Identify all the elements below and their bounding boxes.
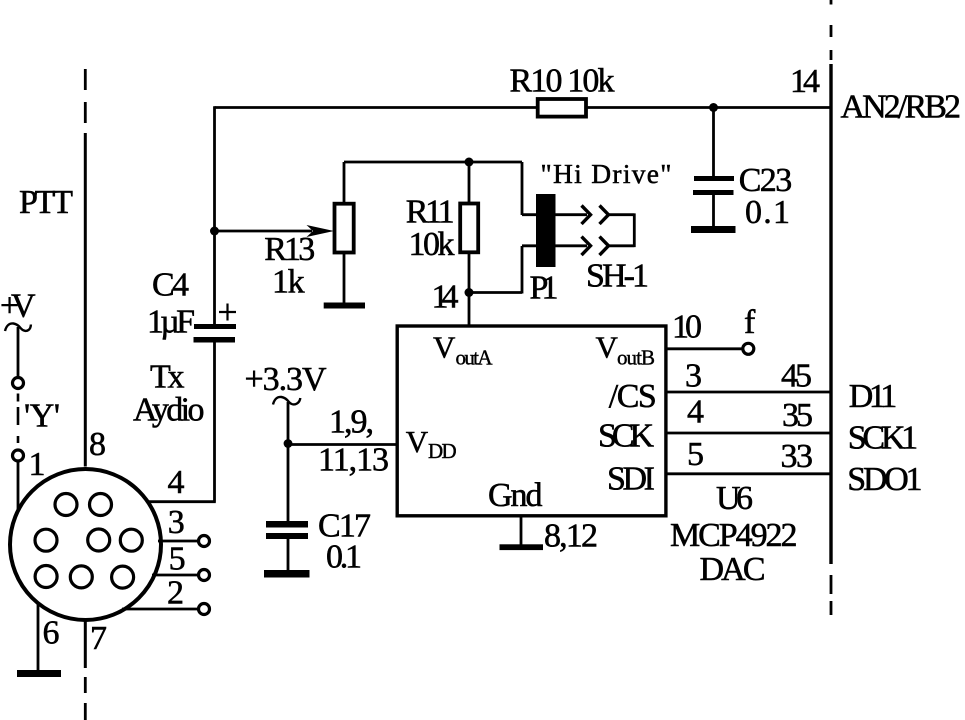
svg-text:V: V xyxy=(433,330,456,365)
svg-text:Tx: Tx xyxy=(150,359,185,396)
svg-text:DD: DD xyxy=(428,439,457,463)
svg-text:D11: D11 xyxy=(849,378,898,415)
svg-text:Aydio: Aydio xyxy=(133,392,205,429)
svg-text:0.1: 0.1 xyxy=(745,194,790,231)
svg-text:'Y': 'Y' xyxy=(24,398,60,435)
svg-text:3: 3 xyxy=(685,358,702,395)
svg-text:1µF: 1µF xyxy=(147,304,195,341)
svg-text:5: 5 xyxy=(687,436,704,473)
svg-text:"Hi Drive": "Hi Drive" xyxy=(541,158,672,189)
svg-text:R10 10k: R10 10k xyxy=(510,63,615,100)
svg-text:11,13: 11,13 xyxy=(318,442,389,479)
svg-text:4: 4 xyxy=(687,394,704,431)
svg-text:1k: 1k xyxy=(272,263,305,300)
svg-text:U6: U6 xyxy=(716,480,753,517)
svg-text:7: 7 xyxy=(90,620,107,657)
svg-text:MCP4922: MCP4922 xyxy=(670,517,798,554)
svg-text:45: 45 xyxy=(781,358,812,395)
svg-text:DAC: DAC xyxy=(700,551,766,588)
svg-text:8,12: 8,12 xyxy=(544,518,598,555)
svg-text:V: V xyxy=(406,424,429,459)
svg-text:10: 10 xyxy=(672,309,702,346)
svg-text:8: 8 xyxy=(89,426,106,463)
svg-text:0.1: 0.1 xyxy=(326,539,362,576)
svg-text:10k: 10k xyxy=(409,226,455,263)
svg-text:C4: C4 xyxy=(152,267,189,304)
svg-text:outB: outB xyxy=(617,346,655,370)
svg-text:V: V xyxy=(596,330,619,365)
svg-text:R11: R11 xyxy=(406,194,455,231)
svg-text:SDI: SDI xyxy=(607,461,655,498)
svg-text:/CS: /CS xyxy=(609,378,657,415)
svg-text:14: 14 xyxy=(790,63,820,100)
svg-text:5: 5 xyxy=(169,541,186,578)
svg-text:+V: +V xyxy=(0,288,36,325)
svg-text:+3.3V: +3.3V xyxy=(245,361,327,398)
svg-text:1,9,: 1,9, xyxy=(329,404,374,441)
svg-text:f: f xyxy=(744,304,756,341)
svg-text:SDO1: SDO1 xyxy=(847,461,922,498)
svg-text:SCK1: SCK1 xyxy=(848,420,918,457)
svg-text:6: 6 xyxy=(43,615,60,652)
svg-text:P1: P1 xyxy=(530,270,559,307)
svg-text:1: 1 xyxy=(29,446,46,483)
svg-text:AN2/RB2: AN2/RB2 xyxy=(841,89,962,126)
svg-text:SCK: SCK xyxy=(598,417,654,454)
svg-text:14: 14 xyxy=(432,279,459,316)
svg-text:3: 3 xyxy=(168,504,185,541)
svg-text:4: 4 xyxy=(168,464,185,501)
svg-text:2: 2 xyxy=(167,574,184,611)
svg-text:outA: outA xyxy=(456,346,494,370)
svg-text:SH-1: SH-1 xyxy=(586,257,649,294)
svg-text:35: 35 xyxy=(782,397,813,434)
svg-text:33: 33 xyxy=(781,438,814,475)
svg-text:PTT: PTT xyxy=(19,184,73,221)
svg-text:Gnd: Gnd xyxy=(488,477,543,514)
